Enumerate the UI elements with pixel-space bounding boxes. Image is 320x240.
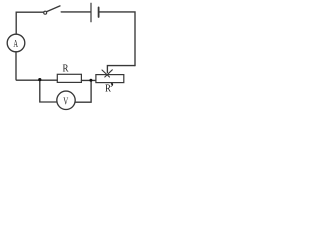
svg-text:R: R <box>63 63 70 75</box>
rheostat R' box <box>96 75 124 83</box>
wire ammeter-to-bottom corner <box>16 52 57 80</box>
wire battery-to-right-corner and right wire down <box>99 12 135 66</box>
wire switch-to-battery <box>61 11 90 13</box>
resistor R box <box>57 74 81 82</box>
battery short plate <box>98 7 100 17</box>
wire top-left segment <box>16 12 44 34</box>
junction node dot right <box>89 79 92 82</box>
voltmeter branch right drop <box>75 81 91 103</box>
junction node dot left <box>38 78 41 81</box>
voltmeter branch left drop <box>40 80 57 102</box>
svg-text:’: ’ <box>110 80 114 95</box>
ammeter A circle <box>7 34 25 52</box>
svg-text:A: A <box>13 38 18 50</box>
battery long plate <box>90 3 92 22</box>
svg-text:V: V <box>63 95 68 107</box>
wiper arrowhead <box>102 70 112 77</box>
switch pivot <box>44 11 47 14</box>
wire R-to-rheostat <box>81 79 95 81</box>
voltmeter V circle <box>57 91 75 109</box>
wiper feed wire <box>107 66 135 73</box>
switch blade <box>46 6 60 12</box>
